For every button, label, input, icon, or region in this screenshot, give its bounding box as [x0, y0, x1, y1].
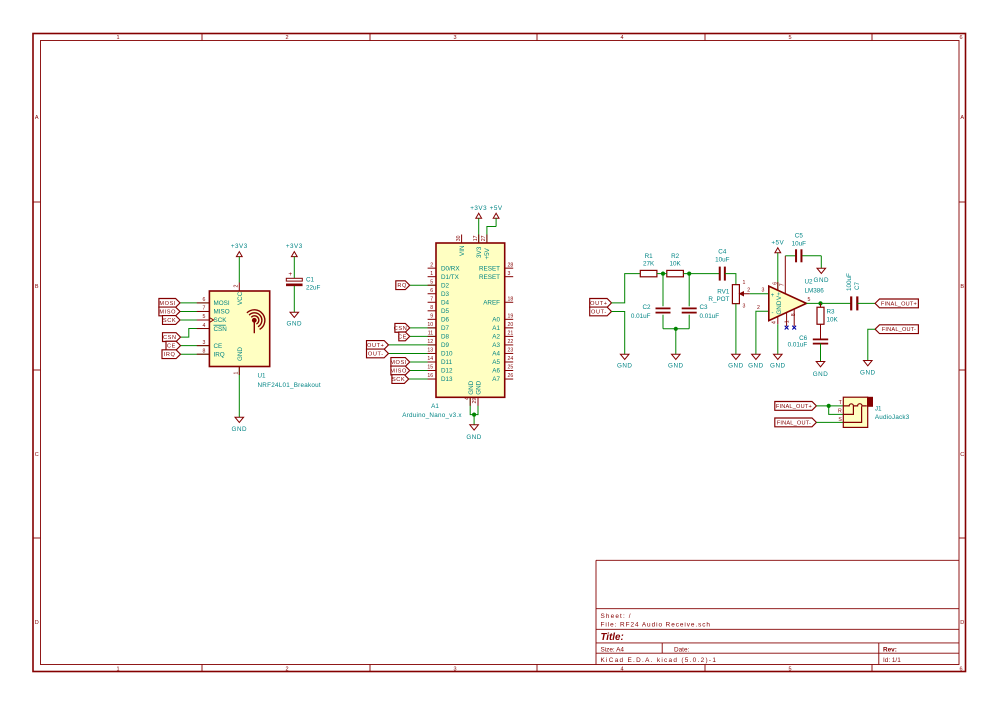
svg-text:3: 3	[453, 666, 456, 672]
svg-text:100uF: 100uF	[846, 273, 853, 291]
svg-text:GND: GND	[814, 277, 830, 284]
svg-text:2: 2	[285, 35, 288, 41]
svg-text:24: 24	[508, 356, 514, 362]
svg-text:C3: C3	[700, 304, 709, 311]
svg-text:R2: R2	[671, 253, 680, 260]
svg-text:27K: 27K	[643, 260, 655, 267]
svg-text:6: 6	[772, 282, 778, 285]
svg-text:C4: C4	[718, 249, 727, 256]
svg-text:25: 25	[508, 365, 514, 371]
svg-text:AREF: AREF	[483, 299, 500, 306]
svg-text:5: 5	[788, 35, 791, 41]
svg-text:A: A	[960, 115, 964, 121]
svg-text:B: B	[960, 284, 964, 290]
svg-text:D13: D13	[441, 376, 453, 383]
svg-text:CSN: CSN	[394, 326, 408, 332]
svg-text:+3V3: +3V3	[231, 243, 248, 250]
svg-text:Title:: Title:	[601, 632, 624, 643]
svg-text:7: 7	[430, 296, 433, 302]
svg-text:GND: GND	[468, 380, 475, 394]
svg-text:5: 5	[430, 279, 433, 285]
svg-text:Date:: Date:	[674, 647, 689, 654]
svg-text:4: 4	[620, 666, 623, 672]
svg-text:Arduino_Nano_v3.x: Arduino_Nano_v3.x	[402, 412, 462, 419]
svg-text:23: 23	[508, 348, 514, 354]
svg-text:0.01uF: 0.01uF	[700, 313, 720, 320]
svg-text:IRQ: IRQ	[214, 351, 225, 358]
svg-text:C: C	[35, 452, 39, 458]
svg-text:2: 2	[757, 305, 760, 311]
svg-text:CE: CE	[214, 343, 223, 350]
svg-text:1: 1	[116, 666, 119, 672]
svg-text:S: S	[838, 417, 842, 423]
svg-text:20: 20	[508, 322, 514, 328]
svg-text:7: 7	[780, 283, 786, 286]
svg-text:4: 4	[772, 321, 778, 324]
svg-text:CE: CE	[167, 344, 176, 350]
svg-text:+3V3: +3V3	[286, 243, 303, 250]
svg-text:GND: GND	[748, 362, 764, 369]
svg-text:27: 27	[481, 235, 487, 241]
svg-text:NRF24L01_Breakout: NRF24L01_Breakout	[258, 382, 321, 389]
svg-text:8: 8	[430, 305, 433, 311]
svg-text:FINAL_OUT+: FINAL_OUT+	[881, 301, 917, 307]
svg-text:29: 29	[472, 398, 478, 404]
svg-text:FINAL_OUT-: FINAL_OUT-	[777, 420, 811, 426]
svg-text:30: 30	[456, 235, 462, 241]
svg-text:22: 22	[508, 339, 514, 345]
svg-text:FINAL_OUT+: FINAL_OUT+	[776, 404, 812, 410]
svg-text:13: 13	[427, 348, 433, 354]
svg-text:C2: C2	[642, 304, 651, 311]
svg-text:U1: U1	[258, 373, 267, 380]
svg-text:A1: A1	[492, 325, 500, 332]
svg-text:D5: D5	[441, 308, 450, 315]
svg-text:3: 3	[762, 288, 765, 294]
svg-text:VIN: VIN	[459, 245, 466, 256]
svg-text:+: +	[288, 271, 292, 278]
svg-text:GND: GND	[237, 347, 244, 361]
svg-text:+: +	[771, 293, 775, 299]
svg-text:GND: GND	[813, 371, 829, 378]
svg-text:C7: C7	[854, 281, 861, 290]
svg-text:SCK: SCK	[214, 317, 228, 324]
svg-text:5: 5	[807, 297, 810, 303]
svg-text:17: 17	[473, 235, 479, 241]
svg-text:6: 6	[959, 35, 962, 41]
svg-text:GND: GND	[287, 321, 303, 328]
svg-text:1: 1	[430, 271, 433, 277]
svg-text:2: 2	[430, 262, 433, 268]
svg-text:A: A	[35, 115, 39, 121]
svg-text:4: 4	[464, 397, 470, 400]
svg-text:GND: GND	[776, 300, 783, 314]
svg-text:3: 3	[508, 271, 511, 277]
svg-text:18: 18	[508, 296, 514, 302]
svg-text:R_POT: R_POT	[708, 296, 729, 303]
svg-text:11: 11	[428, 331, 433, 337]
svg-text:4: 4	[203, 323, 206, 329]
svg-text:D: D	[35, 620, 39, 626]
svg-text:D11: D11	[441, 359, 453, 366]
svg-text:7: 7	[203, 306, 206, 312]
svg-text:RESET: RESET	[479, 274, 500, 281]
svg-text:GND: GND	[668, 362, 684, 369]
svg-text:Size: A4: Size: A4	[601, 647, 625, 654]
svg-text:4: 4	[620, 35, 623, 41]
svg-text:A1: A1	[431, 403, 439, 410]
svg-text:A2: A2	[492, 334, 500, 341]
svg-text:26: 26	[508, 373, 514, 379]
svg-text:D12: D12	[441, 368, 453, 375]
svg-text:+5V: +5V	[490, 205, 503, 212]
svg-text:1: 1	[234, 372, 240, 375]
svg-text:D7: D7	[441, 325, 450, 332]
svg-text:GND: GND	[466, 434, 482, 441]
svg-text:10: 10	[427, 322, 433, 328]
svg-text:A5: A5	[492, 359, 500, 366]
svg-text:A6: A6	[492, 368, 500, 375]
svg-text:0.01uF: 0.01uF	[788, 342, 808, 349]
svg-text:8: 8	[791, 313, 797, 316]
svg-text:GND: GND	[476, 380, 483, 394]
svg-text:6: 6	[430, 288, 433, 294]
svg-text:10uF: 10uF	[715, 256, 730, 263]
svg-text:+5V: +5V	[484, 247, 491, 259]
svg-text:B: B	[35, 284, 39, 290]
svg-text:CSN: CSN	[163, 335, 177, 341]
svg-text:V+: V+	[776, 292, 783, 300]
svg-text:MISO: MISO	[390, 369, 407, 375]
svg-text:U2: U2	[805, 279, 814, 286]
svg-text:5: 5	[788, 666, 791, 672]
svg-text:GND: GND	[232, 426, 248, 433]
svg-text:22uF: 22uF	[306, 284, 321, 291]
svg-text:C1: C1	[306, 276, 315, 283]
svg-text:OUT+: OUT+	[367, 343, 384, 349]
svg-text:VCC: VCC	[237, 291, 244, 305]
svg-text:R3: R3	[827, 309, 836, 316]
svg-text:SCK: SCK	[392, 377, 405, 383]
svg-text:GND: GND	[728, 362, 744, 369]
svg-text:D3: D3	[441, 291, 450, 298]
svg-text:A0: A0	[492, 317, 500, 324]
svg-text:-: -	[772, 311, 774, 317]
svg-text:D1/TX: D1/TX	[441, 274, 460, 281]
svg-text:9: 9	[430, 314, 433, 320]
svg-text:C5: C5	[795, 233, 804, 240]
svg-text:1: 1	[116, 35, 119, 41]
svg-text:OUT-: OUT-	[591, 309, 607, 315]
svg-text:10K: 10K	[669, 260, 681, 267]
svg-text:+3V3: +3V3	[470, 205, 487, 212]
svg-text:0.01uF: 0.01uF	[631, 313, 651, 320]
svg-text:2: 2	[747, 288, 750, 294]
svg-text:MISO: MISO	[159, 309, 176, 315]
svg-text:3V3: 3V3	[476, 246, 483, 258]
svg-text:RV1: RV1	[717, 288, 730, 295]
svg-text:CSN: CSN	[214, 326, 228, 333]
svg-text:10uF: 10uF	[792, 240, 807, 247]
svg-text:5: 5	[203, 314, 206, 320]
svg-text:1: 1	[784, 320, 790, 323]
svg-text:Rev:: Rev:	[883, 647, 897, 654]
svg-text:D9: D9	[441, 342, 450, 349]
svg-text:KiCad E.D.A. kicad (5.0.2)-1: KiCad E.D.A. kicad (5.0.2)-1	[601, 657, 718, 664]
svg-text:AudioJack3: AudioJack3	[875, 414, 910, 421]
svg-text:D: D	[960, 620, 964, 626]
svg-text:OUT-: OUT-	[368, 351, 384, 357]
svg-text:3: 3	[453, 35, 456, 41]
svg-text:D2: D2	[441, 282, 450, 289]
svg-text:MOSI: MOSI	[214, 300, 230, 307]
svg-text:OUT+: OUT+	[590, 301, 607, 307]
svg-text:C: C	[960, 452, 964, 458]
svg-text:IRQ: IRQ	[164, 352, 176, 358]
svg-text:MOSI: MOSI	[390, 360, 407, 366]
svg-text:R1: R1	[645, 253, 654, 260]
svg-text:12: 12	[427, 339, 433, 345]
svg-text:6: 6	[203, 297, 206, 303]
svg-text:Sheet: /: Sheet: /	[601, 613, 632, 620]
svg-text:15: 15	[427, 365, 433, 371]
svg-text:J1: J1	[875, 405, 882, 412]
svg-text:28: 28	[508, 262, 514, 268]
svg-text:GND: GND	[770, 362, 786, 369]
svg-text:CE: CE	[398, 334, 407, 340]
svg-text:LM386: LM386	[805, 288, 825, 295]
svg-text:D10: D10	[441, 351, 453, 358]
svg-text:A3: A3	[492, 342, 500, 349]
svg-text:A7: A7	[492, 376, 500, 383]
svg-text:D0/RX: D0/RX	[441, 265, 460, 272]
svg-text:A4: A4	[492, 351, 500, 358]
svg-text:2: 2	[285, 666, 288, 672]
svg-text:14: 14	[427, 356, 433, 362]
svg-text:3: 3	[743, 304, 746, 310]
svg-text:FINAL_OUT-: FINAL_OUT-	[882, 327, 916, 333]
svg-text:D6: D6	[441, 317, 450, 324]
svg-text:1: 1	[743, 280, 746, 286]
svg-text:16: 16	[427, 373, 433, 379]
svg-text:+5V: +5V	[771, 239, 784, 246]
svg-text:D8: D8	[441, 334, 450, 341]
svg-text:D4: D4	[441, 299, 450, 306]
svg-text:GND: GND	[617, 362, 633, 369]
svg-text:SCK: SCK	[163, 318, 176, 324]
svg-text:RESET: RESET	[479, 265, 500, 272]
svg-text:8: 8	[203, 348, 206, 354]
svg-text:MISO: MISO	[214, 309, 230, 316]
svg-text:19: 19	[508, 314, 514, 320]
svg-text:6: 6	[959, 666, 962, 672]
svg-text:R: R	[838, 409, 842, 415]
svg-text:21: 21	[508, 331, 514, 337]
svg-text:IRQ: IRQ	[395, 283, 407, 289]
svg-text:GND: GND	[860, 370, 876, 377]
svg-text:MOSI: MOSI	[159, 301, 176, 307]
svg-text:3: 3	[203, 340, 206, 346]
svg-text:Id: 1/1: Id: 1/1	[883, 657, 901, 664]
svg-text:File: RF24 Audio Receive.sch: File: RF24 Audio Receive.sch	[601, 621, 711, 628]
svg-text:2: 2	[234, 285, 240, 288]
svg-text:10K: 10K	[827, 316, 839, 323]
